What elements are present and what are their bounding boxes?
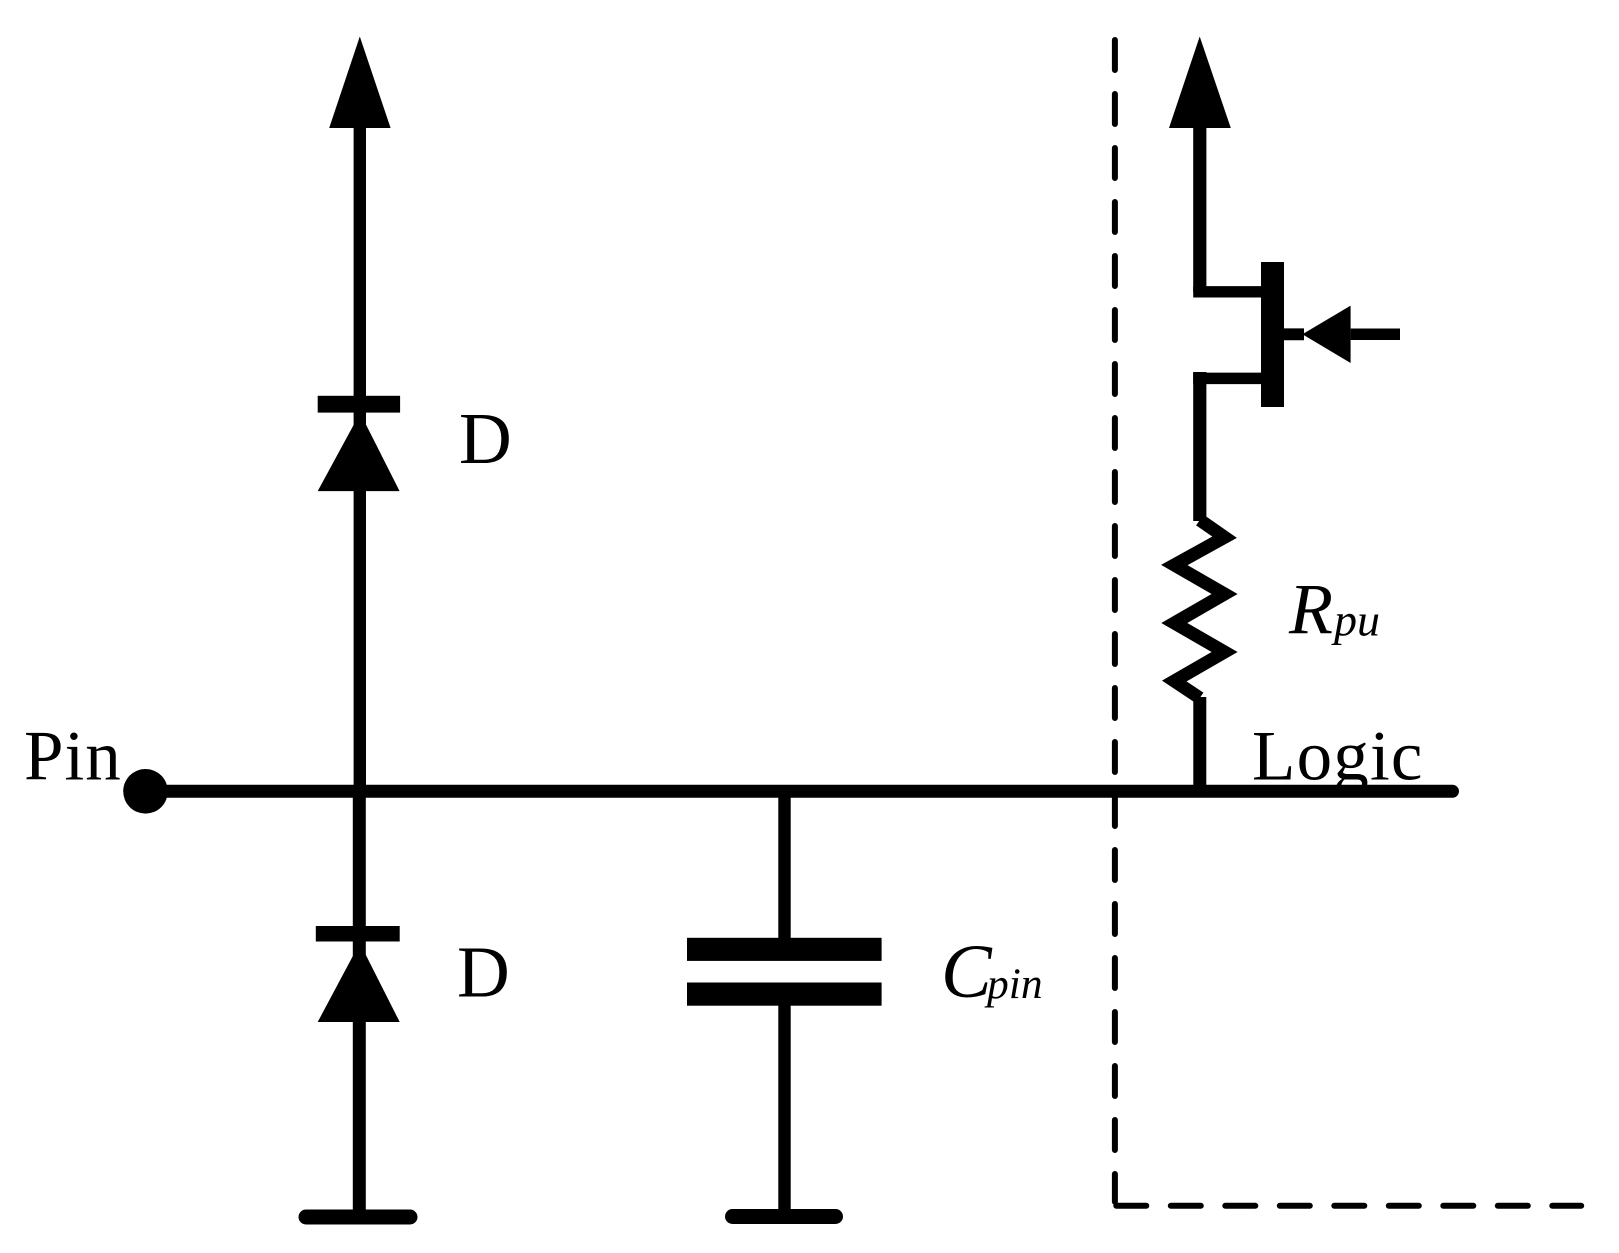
transistor gate arrowhead — [1302, 306, 1350, 363]
wire capacitor bottom lead — [778, 1005, 790, 1214]
power VDD arrow left — [329, 37, 390, 129]
wire resistor bottom lead — [1193, 697, 1206, 791]
power VDD arrow right — [1169, 37, 1231, 129]
svg-text:D: D — [457, 932, 510, 1013]
boundary dashed chip outline horizontal — [1116, 1203, 1581, 1209]
node Pin terminal dot — [123, 769, 168, 814]
wire transistor drain stem — [1193, 125, 1206, 292]
svg-text:pu: pu — [1331, 595, 1380, 646]
diode D lower anode triangle — [318, 943, 400, 1022]
wire transistor gate lead — [1351, 329, 1400, 341]
diode D lower cathode bar — [316, 926, 400, 942]
capacitor Cpin bottom plate — [687, 983, 882, 1006]
capacitor Cpin top plate — [687, 938, 882, 961]
svg-text:D: D — [459, 398, 512, 479]
svg-text:pin: pin — [984, 960, 1043, 1008]
wire capacitor top lead — [778, 791, 790, 940]
wire transistor top lead horizontal — [1193, 286, 1261, 297]
svg-text:R: R — [1288, 569, 1333, 649]
diode D upper cathode bar — [318, 396, 400, 413]
wire transistor source stem down — [1193, 372, 1206, 521]
transistor gate stub — [1284, 328, 1304, 340]
svg-text:Pin: Pin — [24, 718, 122, 796]
svg-text:C: C — [941, 930, 993, 1014]
wire transistor bottom lead horizontal — [1193, 373, 1261, 385]
ground below capacitor — [733, 1209, 836, 1224]
svg-text:Logic: Logic — [1252, 717, 1424, 795]
wire diode branch stem lower — [353, 791, 366, 1214]
ground below lower diode — [306, 1210, 410, 1225]
wire diode branch stem upper — [354, 125, 366, 791]
diode D upper anode triangle — [318, 413, 400, 491]
transistor channel bar — [1261, 262, 1284, 407]
wire main horizontal net from Pin to Logic — [146, 785, 1453, 798]
resistor Rpu zigzag — [1174, 520, 1224, 698]
boundary dashed chip outline vertical — [1112, 40, 1118, 1202]
